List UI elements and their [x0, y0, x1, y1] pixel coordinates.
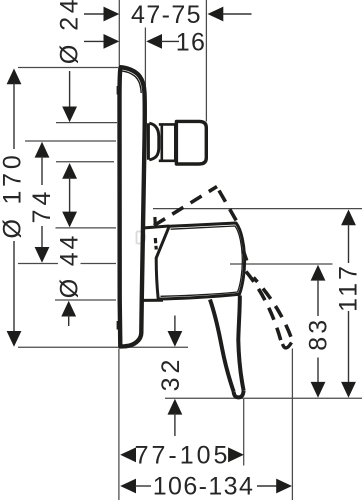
raised lever dashed top-left edge	[154, 187, 217, 226]
watermark	[137, 232, 146, 244]
raised lever dashed edge past head	[244, 251, 247, 261]
dim 106-134 right arrow	[257, 485, 280, 487]
lever stem	[210, 296, 244, 398]
raised lever hub dash 1	[153, 217, 157, 224]
svg-text:47-75: 47-75	[131, 1, 202, 29]
dim Ø44 top extension line	[56, 227, 117, 229]
handle top extension line	[153, 208, 362, 210]
dim 32 lower arrow	[168, 399, 183, 415]
dim 16 left arrow	[84, 40, 105, 42]
handle tip extension line (bottom)	[243, 399, 245, 466]
raised lever hub dash 2	[155, 238, 156, 250]
handle hub bottom edge	[142, 299, 164, 302]
svg-text:77-105: 77-105	[135, 442, 231, 470]
svg-text:83: 83	[305, 317, 333, 351]
knob axis line	[25, 140, 116, 142]
handle hub top edge	[143, 226, 169, 228]
svg-text:Ø 44: Ø 44	[56, 233, 84, 298]
knob end cap	[176, 121, 206, 164]
dim 77-105 right arrow	[228, 447, 244, 462]
dim 32 top extension line	[124, 346, 188, 348]
escutcheon front face extension line	[144, 28, 146, 123]
knob stem cylinder	[159, 124, 177, 160]
knob base cone	[148, 123, 158, 160]
dim Ø24 lower arrow joined to dim Ø44 upper arrow	[62, 163, 77, 179]
dim Ø170 line with arrows	[7, 69, 22, 85]
dim 117 line with arrows	[341, 210, 356, 226]
dim Ø44 lower arrow	[61, 301, 76, 317]
dim 74 line with arrows	[35, 142, 50, 158]
svg-text:74: 74	[28, 188, 56, 224]
escutcheon top extension line	[18, 67, 118, 69]
escutcheon rear rim nubs	[117, 86, 119, 95]
dim 32 upper arrow	[174, 316, 176, 334]
dim Ø44 bottom extension line	[55, 299, 116, 301]
dim 47-75 right arrow	[208, 7, 224, 22]
wall reference extension line (top)	[118, 0, 120, 66]
escutcheon (wall plate, side profile)	[120, 67, 145, 346]
handle axis line (left side, gap at label)	[18, 263, 58, 265]
dim 47-75 left arrow	[84, 13, 105, 15]
dim Ø24 upper arrow	[69, 71, 71, 108]
svg-text:32: 32	[157, 356, 185, 392]
raised lever tip extension line (bottom)	[291, 349, 293, 500]
knob Ø24 top extension line	[56, 122, 117, 124]
svg-text:117: 117	[335, 263, 362, 312]
svg-text:106-134: 106-134	[153, 473, 255, 500]
handle axis extension line (right side)	[230, 263, 333, 265]
dim 106-134 left arrow	[120, 479, 136, 494]
raised lever dashed stem right edge	[254, 278, 293, 342]
lever head inner line	[161, 226, 243, 296]
raised lever dashed tip	[283, 343, 292, 348]
dim 16 right arrow	[146, 34, 162, 49]
dim 77-105 left arrow	[120, 447, 136, 462]
svg-text:Ø 170: Ø 170	[0, 151, 27, 238]
raised lever dashed stem left edge	[246, 272, 282, 344]
escutcheon inner top arc	[122, 71, 142, 93]
bottom long extension line	[165, 397, 362, 399]
svg-text:Ø 24: Ø 24	[56, 0, 84, 64]
dim 83 line with arrows	[311, 265, 326, 281]
svg-text:16: 16	[176, 29, 207, 57]
lever head outline	[156, 223, 244, 299]
dim Ø170 bottom extension line	[18, 346, 122, 348]
knob Ø24 bottom extension line	[56, 161, 114, 163]
wall reference extension line (bottom)	[118, 349, 120, 500]
raised lever dashed top-right edge	[219, 191, 239, 225]
knob end face extension line	[205, 0, 207, 122]
